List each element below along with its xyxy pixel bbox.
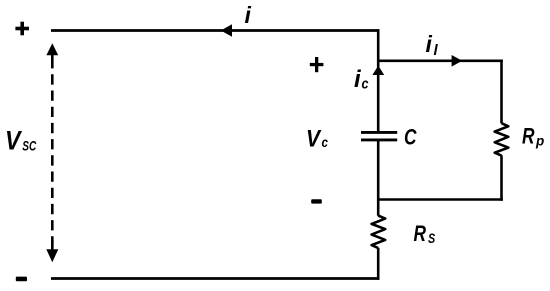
resistor R_p bbox=[495, 123, 509, 155]
wire: main vertical lower (R_S to bottom wire) bbox=[377, 248, 380, 280]
svg-text:C: C bbox=[404, 124, 417, 149]
wire bottom bbox=[51, 277, 379, 280]
capacitor C bbox=[361, 132, 397, 140]
label i_c bbox=[354, 66, 369, 93]
label i_l bbox=[426, 31, 439, 59]
wire: main vertical between capacitor and R_S bbox=[377, 141, 380, 216]
svg-text:R: R bbox=[522, 123, 535, 148]
wire top bbox=[51, 29, 379, 32]
label - (V_c polarity) bbox=[311, 199, 322, 203]
svg-text:R: R bbox=[414, 221, 427, 246]
wire: bottom of R_p branch bbox=[377, 198, 503, 201]
label R_p bbox=[522, 123, 544, 148]
wire: R_p branch vertical lower bbox=[500, 155, 503, 201]
current arrow i_c bbox=[372, 66, 384, 75]
current arrow i bbox=[221, 24, 232, 37]
terminal - (source negative) bbox=[16, 277, 27, 282]
svg-text:i: i bbox=[245, 2, 252, 28]
wire: main vertical branch (top wire down to capacitor) bbox=[377, 29, 380, 131]
svg-text:c: c bbox=[362, 76, 370, 93]
svg-text:c: c bbox=[322, 134, 329, 150]
resistor R_S bbox=[372, 216, 386, 249]
svg-text:V: V bbox=[306, 125, 322, 152]
wire: top of R_p branch bbox=[377, 59, 503, 62]
terminal + (source positive) bbox=[15, 22, 29, 36]
svg-text:V: V bbox=[5, 126, 22, 156]
V_SC reference arrow (dashed, double-headed) bbox=[46, 43, 58, 262]
label V_c bbox=[306, 125, 328, 152]
label V_SC bbox=[5, 126, 36, 156]
wire: R_p branch vertical upper bbox=[500, 60, 503, 124]
svg-text:p: p bbox=[535, 133, 544, 148]
label + (V_c polarity) bbox=[310, 57, 324, 72]
label R_S bbox=[414, 221, 436, 246]
svg-text:i: i bbox=[426, 31, 433, 57]
current arrow i_l bbox=[452, 55, 463, 67]
svg-text:SC: SC bbox=[22, 139, 36, 154]
svg-text:S: S bbox=[428, 230, 436, 246]
